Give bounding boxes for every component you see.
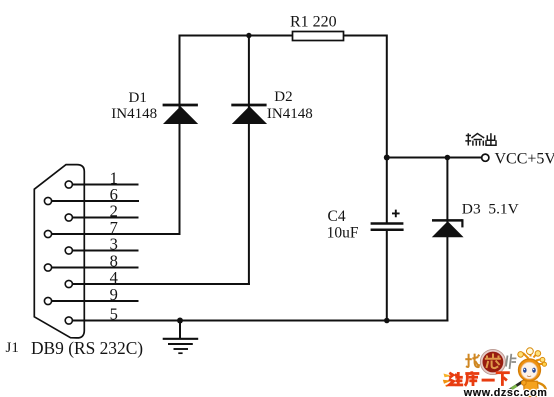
svg-text:D2: D2 (274, 89, 292, 105)
svg-text:www.dzsc.com: www.dzsc.com (463, 387, 548, 397)
svg-text:IN4148: IN4148 (267, 106, 313, 122)
svg-text:IN4148: IN4148 (111, 106, 157, 122)
svg-text:9: 9 (110, 285, 118, 304)
svg-text:C4: C4 (328, 208, 346, 225)
svg-text:D3 5.1V: D3 5.1V (462, 201, 519, 217)
svg-text:DB9 (RS 232C): DB9 (RS 232C) (31, 338, 143, 358)
svg-text:5: 5 (110, 304, 118, 323)
svg-text:J1: J1 (6, 340, 19, 356)
svg-text:D1: D1 (129, 90, 147, 106)
svg-text:10uF: 10uF (327, 225, 359, 242)
svg-text:VCC+5V: VCC+5V (495, 151, 554, 168)
svg-text:R1 220: R1 220 (290, 13, 337, 30)
